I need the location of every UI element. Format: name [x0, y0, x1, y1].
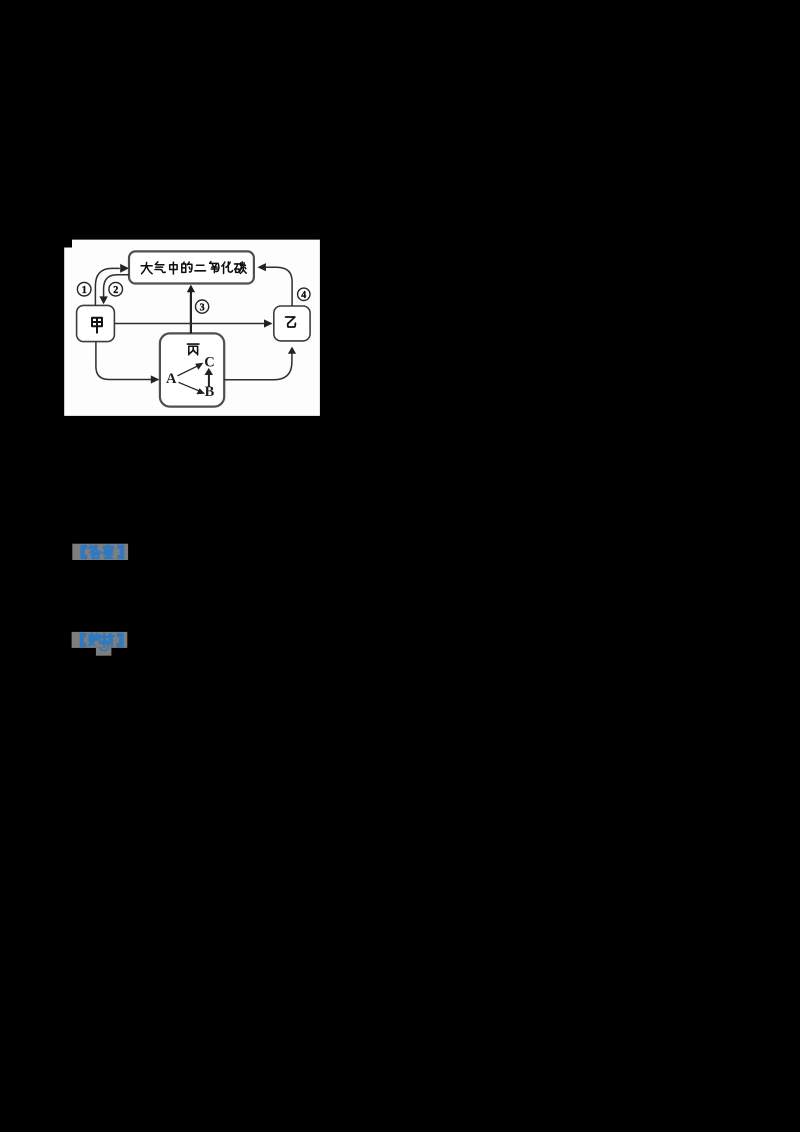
text 大气中的二氧化碳 — [141, 262, 246, 274]
svg-text:3: 3 — [200, 303, 205, 314]
text 乙 — [286, 317, 296, 327]
arrow 2: CO2 box to 甲 — [104, 275, 129, 297]
label circled 3 — [196, 300, 209, 314]
white panel (diagram image with stepped top-left corner) — [64, 240, 320, 416]
svg-text:A: A — [166, 371, 177, 387]
box 乙 — [274, 306, 310, 341]
box 大气中的二氧化碳 (atmospheric CO2) — [129, 251, 254, 283]
label circled 1 — [77, 282, 91, 296]
arrow 甲 to 乙 (horizontal) — [114, 323, 264, 325]
arrow B to C — [205, 368, 214, 387]
arrow 1: 甲 to CO2 box — [95, 268, 119, 305]
box 甲 — [77, 305, 115, 341]
arrow A to C — [178, 363, 204, 376]
arrow 丙 to 乙 — [224, 354, 292, 380]
label circled 2 — [109, 282, 123, 296]
arrow 3: 丙 to CO2 box (vertical) — [190, 292, 192, 334]
label 【解析】 highlight descender tab — [96, 648, 112, 656]
label 【解析】 blue descender stroke — [100, 648, 109, 651]
svg-text:4: 4 — [301, 290, 306, 301]
arrow 4: 乙 to CO2 box — [266, 267, 292, 306]
svg-text:2: 2 — [113, 285, 118, 296]
svg-text:C: C — [204, 354, 214, 370]
text 甲 — [92, 318, 102, 333]
label 【解析】 highlight — [72, 632, 128, 648]
label 【答案】 highlight — [72, 544, 128, 560]
text 丙 — [187, 344, 199, 355]
box 丙 — [160, 333, 224, 406]
label circled 4 — [298, 288, 310, 301]
arrow A to B — [179, 382, 206, 394]
svg-text:1: 1 — [82, 285, 87, 296]
arrow 甲 to 丙 — [96, 342, 151, 380]
label 【答案】 text — [82, 545, 123, 558]
label 【解析】 text — [81, 634, 122, 646]
